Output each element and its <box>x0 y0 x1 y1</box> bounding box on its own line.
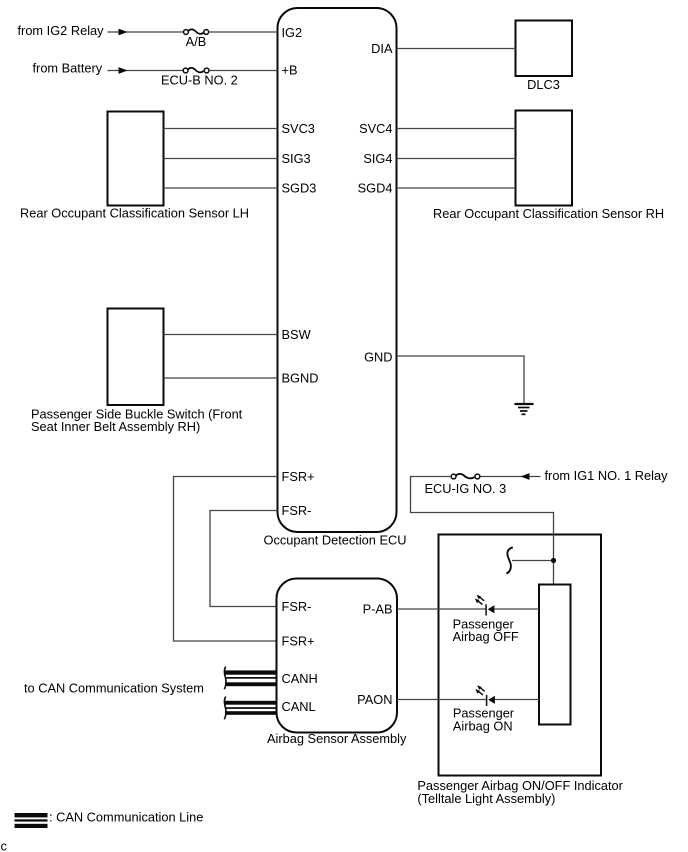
svg-text:from Battery: from Battery <box>33 60 103 75</box>
svg-text:Occupant Detection ECU: Occupant Detection ECU <box>264 533 407 548</box>
svg-text:Airbag ON: Airbag ON <box>453 718 513 733</box>
legend CAN Communication Line <box>15 813 48 828</box>
svg-text:Airbag Sensor Assembly: Airbag Sensor Assembly <box>267 731 407 746</box>
LED Passenger Airbag ON <box>475 685 495 706</box>
fuse ECU-B NO. 2 <box>183 68 209 73</box>
wire SIG3 <box>164 158 278 160</box>
label Passenger Side Buckle Switch <box>31 407 243 435</box>
indicator box Passenger Airbag ON/OFF Indicator <box>439 535 602 776</box>
svg-text:BSW: BSW <box>282 327 312 342</box>
svg-text:SGD3: SGD3 <box>282 181 317 196</box>
svg-text:from IG1 NO. 1 Relay: from IG1 NO. 1 Relay <box>545 468 669 483</box>
sensor box Rear Occupant Classification Sensor LH <box>108 112 164 206</box>
CAN bus CANL <box>224 697 276 720</box>
svg-text:P-AB: P-AB <box>363 602 393 617</box>
svg-text:CANH: CANH <box>282 671 318 686</box>
svg-text:A/B: A/B <box>186 34 207 49</box>
wire SVC4 <box>397 128 516 130</box>
wire BSW <box>164 334 278 336</box>
svg-text:FSR-: FSR- <box>282 503 312 518</box>
wire fuse ECU-B NO. 2 to pin +B <box>209 70 278 72</box>
svg-text:PAON: PAON <box>357 692 392 707</box>
svg-text:SIG3: SIG3 <box>282 151 311 166</box>
wire squiggle to junction <box>512 560 554 562</box>
svg-text:FSR-: FSR- <box>282 599 312 614</box>
label Passenger Airbag ON <box>453 705 515 733</box>
fuse ECU-IG NO. 3 <box>451 474 480 479</box>
ECU box Occupant Detection ECU <box>278 8 397 532</box>
ECU box Airbag Sensor Assembly <box>277 579 398 733</box>
wire LED ON to resistor block <box>495 699 539 701</box>
wire SVC3 <box>164 128 278 130</box>
wire SGD3 <box>164 187 278 189</box>
svg-text:SIG4: SIG4 <box>363 151 392 166</box>
svg-text:ECU-B NO. 2: ECU-B NO. 2 <box>161 72 238 87</box>
junction node <box>551 558 556 563</box>
wire fuse A/B to pin IG2 <box>209 31 278 33</box>
svg-text:+B: +B <box>282 63 298 78</box>
svg-text:Rear Occupant Classification S: Rear Occupant Classification Sensor RH <box>433 206 664 221</box>
wire FSR- ECU to FSR- Airbag Sensor Assembly <box>210 511 278 607</box>
svg-text:DIA: DIA <box>371 41 393 56</box>
wire SIG4 <box>397 158 516 160</box>
wire from IG2 Relay to fuse A/B <box>108 29 185 36</box>
wire SGD4 <box>397 187 516 189</box>
svg-text:SGD4: SGD4 <box>358 181 393 196</box>
resistor block in indicator <box>539 585 571 725</box>
svg-text:ECU-IG NO. 3: ECU-IG NO. 3 <box>425 481 507 496</box>
svg-text:to CAN Communication System: to CAN Communication System <box>24 681 204 696</box>
wire GND to ground <box>397 356 525 404</box>
shield squiggle <box>506 547 512 573</box>
switch box Passenger Side Buckle Switch <box>108 309 164 406</box>
connector box DLC3 <box>516 21 573 77</box>
svg-text:(Telltale Light Assembly): (Telltale Light Assembly) <box>417 791 555 806</box>
wire from Battery to fuse ECU-B NO. 2 <box>108 67 184 74</box>
wire DIA <box>397 48 516 50</box>
CAN bus CANH <box>224 667 276 690</box>
svg-text:Seat Inner Belt Assembly RH): Seat Inner Belt Assembly RH) <box>31 419 200 434</box>
wire PAON <box>397 699 486 701</box>
svg-text:Rear Occupant Classification S: Rear Occupant Classification Sensor LH <box>20 206 249 221</box>
svg-text:CANL: CANL <box>282 699 316 714</box>
wire FSR+ ECU to FSR+ Airbag Sensor Assembly <box>174 477 278 642</box>
wire LED OFF to resistor block <box>494 608 539 610</box>
svg-text:GND: GND <box>364 349 392 364</box>
svg-text:BGND: BGND <box>282 371 319 386</box>
ground <box>515 404 534 414</box>
svg-text:FSR+: FSR+ <box>282 634 315 649</box>
svg-text:SVC3: SVC3 <box>282 121 315 136</box>
svg-text:SVC4: SVC4 <box>359 121 392 136</box>
fuse A/B <box>184 29 209 34</box>
svg-text:DLC3: DLC3 <box>527 77 560 92</box>
label Passenger Airbag ON/OFF Indicator <box>417 778 623 806</box>
wire BGND <box>164 377 278 379</box>
wire P-AB <box>397 608 486 610</box>
wire from IG1 NO. 1 Relay to fuse ECU-IG NO. 3 <box>480 473 541 480</box>
sensor box Rear Occupant Classification Sensor RH <box>516 111 573 206</box>
label Passenger Airbag OFF <box>453 616 519 644</box>
svg-text:from IG2 Relay: from IG2 Relay <box>18 23 105 38</box>
svg-text:IG2: IG2 <box>282 25 303 40</box>
svg-text:: CAN Communication Line: : CAN Communication Line <box>49 810 203 825</box>
svg-text:FSR+: FSR+ <box>282 469 315 484</box>
wire fuse ECU-IG NO. 3 to indicator <box>411 477 554 585</box>
LED Passenger Airbag OFF <box>475 595 495 616</box>
svg-text:Airbag OFF: Airbag OFF <box>453 629 519 644</box>
svg-text:c: c <box>1 839 8 852</box>
